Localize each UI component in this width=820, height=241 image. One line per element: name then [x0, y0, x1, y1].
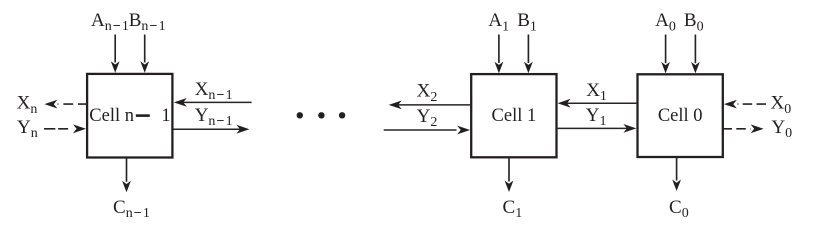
wire C_{n-1} output: [126, 159, 128, 182]
cell 1 box: [471, 74, 556, 157]
wire X_n output (dashed): [58, 103, 87, 105]
wire X_{n-1} input: [183, 101, 252, 103]
svg-text:Bn−1: Bn−1: [129, 10, 167, 34]
wire A_{n-1} input: [114, 35, 116, 63]
cell n-1 box: [87, 74, 172, 158]
svg-text:A1: A1: [488, 10, 509, 34]
svg-text:Cell n: Cell n: [89, 106, 134, 126]
svg-text:1: 1: [161, 106, 170, 126]
wire B_{n-1} input: [144, 35, 146, 63]
svg-text:Cn−1: Cn−1: [113, 197, 151, 221]
cell 0 box: [638, 74, 723, 157]
svg-text:X0: X0: [771, 93, 792, 117]
wire A_0 input: [665, 35, 667, 64]
svg-text:Cell 0: Cell 0: [658, 106, 703, 126]
svg-text:C0: C0: [669, 197, 689, 221]
wire B_0 input: [694, 35, 696, 64]
wire X_1 input: [567, 102, 637, 104]
svg-text:Xn: Xn: [17, 93, 38, 117]
svg-text:Y2: Y2: [417, 106, 438, 130]
svg-text:A0: A0: [655, 10, 676, 34]
ellipsis dots: [297, 112, 303, 118]
svg-text:Yn−1: Yn−1: [195, 105, 234, 129]
svg-text:C1: C1: [503, 197, 523, 221]
svg-text:B0: B0: [684, 10, 704, 34]
wire A_1 input: [498, 35, 500, 64]
svg-text:Xn−1: Xn−1: [195, 79, 234, 103]
svg-text:Yn: Yn: [17, 117, 38, 141]
svg-text:Cell 1: Cell 1: [492, 106, 537, 126]
wire Y_0 output (dashed): [723, 128, 751, 130]
svg-text:Y0: Y0: [771, 117, 792, 141]
svg-text:Y1: Y1: [586, 105, 607, 129]
svg-text:An−1: An−1: [91, 10, 130, 34]
wire C_1 output: [508, 158, 510, 181]
wire C_0 output: [676, 157, 678, 181]
wire Y_{n-1} output: [174, 128, 241, 130]
wire Y_n input (dashed): [44, 128, 72, 130]
svg-text:X2: X2: [417, 81, 438, 105]
svg-text:X1: X1: [586, 80, 607, 104]
wire Y_2 input: [384, 129, 457, 131]
wire X_2 output: [398, 104, 470, 106]
wire Y_1 output: [558, 127, 627, 129]
svg-text:B1: B1: [517, 10, 537, 34]
wire B_1 input: [527, 35, 529, 64]
wire X_0 input (dashed): [738, 103, 767, 105]
